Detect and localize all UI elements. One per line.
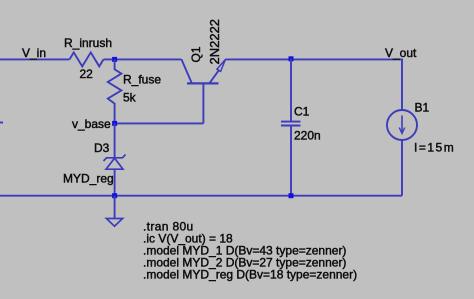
wire V_in horizontal left segment: [0, 58, 70, 60]
node junction at R_inrush / R_fuse: [112, 57, 117, 62]
wire v_base from junction to Q1 base: [115, 122, 204, 124]
svg-text:V_in: V_in: [22, 46, 46, 60]
svg-text:Q1: Q1: [189, 46, 203, 62]
svg-text:R_inrush: R_inrush: [64, 36, 112, 50]
node junction D3/rail: [112, 193, 117, 198]
transistor Q1 emitter arrowhead: [217, 59, 226, 71]
current source B1 circle: [387, 110, 417, 140]
wire from R_inrush to Q1 collector: [104, 58, 182, 60]
wire Q1 emitter to V_out corner: [225, 59, 402, 110]
transistor Q1 base lead: [202, 84, 204, 123]
ground symbol: [106, 219, 122, 227]
svg-text:v_base: v_base: [72, 117, 111, 131]
diode D3 zener cathode bar: [104, 155, 126, 162]
wire ground rail: [0, 195, 402, 197]
svg-text:I=15m: I=15m: [414, 141, 455, 155]
diode D3 bottom lead: [114, 169, 116, 196]
wire stub at left edge (v_base net): [0, 122, 3, 124]
svg-text:B1: B1: [415, 101, 430, 115]
capacitor C1 bottom plate: [281, 125, 301, 127]
node junction C1 top: [289, 56, 294, 61]
svg-text:.model MYD_reg D(Bv=18 type=ze: .model MYD_reg D(Bv=18 type=zenner): [143, 268, 357, 282]
node junction C1 bottom: [289, 193, 294, 198]
resistor R_inrush: [70, 52, 104, 66]
svg-text:D3: D3: [94, 141, 110, 155]
svg-text:2N2222: 2N2222: [207, 19, 222, 65]
current source B1 arrow: [401, 116, 403, 133]
resistor R_fuse: [108, 59, 122, 123]
transistor Q1 emitter lead with arrow: [209, 70, 219, 83]
diode D3 top lead: [114, 123, 116, 157]
svg-text:C1: C1: [294, 105, 310, 119]
svg-text:MYD_reg: MYD_reg: [63, 172, 114, 186]
diode D3 triangle: [106, 158, 123, 169]
transistor Q1 collector lead: [182, 59, 192, 83]
svg-text:22: 22: [80, 67, 94, 81]
svg-text:R_fuse: R_fuse: [123, 73, 161, 87]
transistor Q1 base bar: [187, 82, 219, 84]
svg-text:V_out: V_out: [385, 46, 417, 60]
ground lead: [114, 196, 116, 219]
capacitor C1 bottom lead: [290, 126, 292, 196]
current source B1 bottom lead: [401, 140, 403, 196]
capacitor C1 top lead: [290, 59, 292, 122]
capacitor C1 top plate: [281, 121, 301, 123]
svg-text:5k: 5k: [123, 91, 137, 105]
node v_base junction: [112, 121, 117, 126]
svg-text:220n: 220n: [294, 129, 321, 143]
